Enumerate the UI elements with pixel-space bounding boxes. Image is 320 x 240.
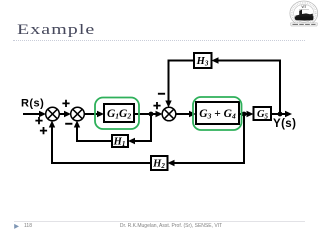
wire: H3 feedback (pickoff after G5, up, left into H3)	[218, 61, 281, 115]
arrowheads	[39, 57, 292, 166]
arrow to Y(s)	[285, 111, 292, 117]
arrow up into sum2 from H1	[74, 121, 80, 128]
wire: H1 feedback (pickoff after G1G2, down, left into H1)	[134, 114, 151, 141]
slide title "Example"	[17, 22, 95, 39]
wire: G3+G4 to G5	[239, 113, 249, 115]
block diagram	[23, 61, 287, 164]
arrow down into sum3 from H3	[165, 101, 171, 108]
wire: H2 feedback (pickoff after G3+G4, down, left into H2)	[174, 114, 245, 163]
arrow into sum3	[156, 111, 163, 117]
svg-text:VIT: VIT	[301, 5, 306, 9]
footer credit text	[0, 223, 320, 229]
footer separator line	[14, 221, 305, 222]
block H3	[194, 53, 212, 68]
wire: H3 output left and down into sum3	[169, 61, 195, 103]
plus sign: R(s) input at sum1	[35, 117, 42, 124]
arrow into sum2	[64, 111, 71, 117]
green highlight around G3+G4	[193, 97, 242, 130]
arrow into H2 (right side)	[168, 160, 175, 166]
wire: H1 output left and up into sum2	[77, 126, 112, 141]
minus sign: H3 input at sum3	[158, 93, 165, 95]
sign labels	[35, 93, 165, 134]
wire: G1G2 to sum3	[134, 113, 158, 115]
wire: R(s) input to sum1	[23, 113, 41, 115]
summing junction sum1	[46, 107, 60, 121]
block G1G2	[104, 104, 134, 122]
wire: G5 to Y(s) output	[271, 113, 287, 115]
junction dot after G3+G4	[242, 112, 247, 117]
svg-text:G3 + G4: G3 + G4	[199, 108, 236, 121]
minus sign: H1 input at sum2	[65, 123, 72, 125]
wire: sum3 to G3+G4	[176, 113, 191, 115]
block H2	[151, 156, 168, 170]
arrow into G1G2	[97, 111, 104, 117]
VIT university seal logo	[290, 1, 318, 26]
summing junction sum3	[162, 107, 176, 121]
junction dot after G5	[278, 112, 283, 117]
junction dot after G1G2	[149, 112, 154, 117]
slide number 118	[24, 223, 32, 229]
wire: sum1 to sum2	[59, 113, 66, 115]
block G5	[254, 107, 272, 121]
wire: H2 output left and up into sum1	[52, 126, 151, 163]
arrow into sum1	[39, 111, 46, 117]
title underline	[13, 40, 305, 41]
green highlight around G1G2	[95, 98, 139, 130]
arrow into G3+G4	[189, 111, 196, 117]
block G3+G4	[196, 102, 239, 124]
arrow up into sum1 from H2	[49, 121, 55, 128]
arrow into G5	[247, 111, 254, 117]
plus sign: input at sum2	[62, 100, 69, 107]
arrow into H3 (right side)	[212, 57, 219, 63]
arrow into H1 (right side)	[128, 138, 135, 144]
svg-text:Y(s): Y(s)	[273, 118, 296, 130]
plus sign: H2 input at sum1	[40, 127, 47, 134]
plus sign: input at sum3	[153, 102, 160, 109]
block H1	[112, 135, 128, 148]
footer slide-advance triangle	[14, 224, 19, 229]
svg-text:R(s): R(s)	[21, 98, 44, 110]
summing junction sum2	[71, 107, 85, 121]
wire: sum2 to G1G2	[84, 113, 98, 115]
